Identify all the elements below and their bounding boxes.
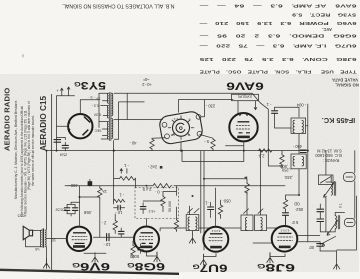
page left margin rule [51, 94, 53, 271]
heater bus 6V6 to 6G8 [84, 252, 106, 254]
junction node at 243.8,150.6 [243, 150, 245, 152]
wire socket top [179, 100, 234, 113]
electrolytic block C15 [88, 181, 93, 186]
wire 6AV6 bottom drop [243, 142, 245, 162]
6AV6 diode plates [239, 132, 251, 134]
wire socket left to transformer [114, 119, 162, 121]
cap C19 .001 [317, 244, 324, 247]
wire bottom right bus [298, 242, 337, 260]
gang 1 arrow [320, 177, 331, 183]
junction node at 46.5,150.6 [46, 150, 48, 152]
tube V3 6V6G envelope [67, 227, 91, 251]
ground under 6U7 [200, 255, 206, 265]
variable cap arrow aerial [327, 220, 338, 235]
resistor R9 rail to socket [211, 138, 215, 150]
6V6 grid dashes [72, 236, 87, 239]
IFT2 sec coil left [293, 156, 295, 166]
long vertical x307 [307, 151, 309, 242]
grid coupling line [93, 236, 132, 238]
wire 6J8 right lead [298, 235, 320, 237]
svg-text:6U7G I.F. AMP. 6.3 — 75 220 —: 6U7G I.F. AMP. 6.3 — 75 220 — [198, 44, 357, 49]
AVC dashed enclosure [135, 188, 179, 219]
grid cap C16 [208, 207, 214, 210]
socket ear hole 4 [197, 131, 202, 136]
wire IFT0 primary to screen rail [246, 192, 248, 215]
junction node at 299,195 [298, 194, 300, 196]
junction node at 56.5,150.6 [56, 150, 58, 152]
cathode bypass cap C9 [72, 208, 77, 211]
wire cathode caps to tube line [71, 201, 79, 203]
6G8 plate bar [141, 232, 153, 234]
wire IFT0 secondary to B+ [260, 151, 262, 215]
socket centre key [176, 123, 185, 132]
wire IFT0 to 6J8 [267, 227, 279, 229]
wire cathode caps [67, 202, 75, 216]
grid return resistor lead [99, 199, 101, 237]
wire between IFT2 boxes [298, 133, 300, 154]
tube V4 6AV6 envelope [229, 113, 257, 141]
grid cap arrow [254, 101, 257, 109]
wire R22 right down to AVC box [134, 178, 136, 187]
AVC line [182, 151, 244, 162]
wire transformer CT down [113, 141, 115, 205]
aerial cap bar [347, 221, 353, 223]
T2 primary winding [40, 230, 41, 247]
wire diode return [226, 145, 244, 147]
wire C24 leads [120, 228, 122, 237]
resistor R16 [245, 183, 249, 195]
osc coil L2 [331, 182, 332, 195]
wire primary branch [126, 93, 128, 119]
svg-text:5Y3G RECT. 5.9: 5Y3G RECT. 5.9 [291, 13, 356, 18]
wire IFT1 top [189, 206, 191, 215]
scan speckle overlay [0, 74, 359, 272]
6U7 base bar [210, 246, 222, 249]
wire 6U7 to IFT0 [222, 227, 241, 229]
grid resistor R6 [113, 220, 117, 232]
label 250 marker [160, 166, 163, 169]
junction node at 146.5,185.7 [146, 185, 148, 187]
cathode resistor R14 5000 [131, 245, 135, 257]
ground under T2 [43, 259, 49, 269]
wire IFT1 to 6G8 [160, 228, 186, 231]
socket inner circle [173, 119, 190, 136]
wire osc coil top [331, 175, 344, 216]
osc coil L2 core [334, 182, 335, 195]
svg-text:6V6G POWER 6.3 13.9 150 210 —: 6V6G POWER 6.3 13.9 150 210 — [198, 21, 356, 26]
wire lamp box to tube top [237, 101, 239, 114]
svg-text:AVC.: AVC. [322, 27, 332, 32]
socket pin marks [168, 116, 194, 140]
wire 6G8 top lead [146, 219, 148, 226]
chassis ground right [333, 259, 339, 269]
trimmer cap CT2 [317, 219, 324, 222]
6V6 base bar [73, 245, 85, 248]
IF transformer IFT2 primary box [291, 118, 306, 133]
IFT0 right coil [261, 217, 263, 230]
coupling cap C10 .01 [107, 234, 109, 241]
wire socket bottom to B+ rail [180, 142, 182, 151]
6J8 grid resistor R17 [283, 199, 287, 211]
filter cap C5 [118, 205, 120, 210]
coupling cap C12 .1 [272, 111, 278, 114]
wire IFT1 to 6U7 [199, 227, 210, 229]
cathode bypass cap C8 [64, 208, 69, 211]
speaker socket plate [158, 110, 203, 145]
screen rail [65, 185, 285, 187]
resistor R19 in box [161, 196, 165, 208]
gang 2 bar [346, 176, 353, 178]
wire 5V taps to rectifier [81, 93, 108, 127]
output transformer T2 speaker cone [23, 226, 32, 239]
wire coil bottoms [320, 197, 335, 232]
wire cap C17 lead [285, 215, 287, 225]
wire osc section verticals [326, 151, 355, 219]
wire cap C16 leads [210, 202, 212, 217]
wire C5 leads [114, 207, 125, 209]
5Y3 anode stroke 2 [83, 130, 89, 136]
svg-text:N.B. ALL VOLTAGES TO CHASSIS N: N.B. ALL VOLTAGES TO CHASSIS NO SIGNAL. [61, 3, 174, 9]
IFT2 sec coil right [302, 156, 304, 166]
wire T2 to 6V6 plate [46, 238, 67, 240]
svg-text:·•:: ·•: [20, 54, 25, 58]
wire IFT2 right vertical [306, 104, 308, 151]
svg-text:6G8G DEMOD. 6.3 2 20 95 —: 6G8G DEMOD. 6.3 2 20 95 — [198, 34, 357, 39]
6G8 diode plates [142, 242, 154, 244]
cathode cap C22 [138, 247, 143, 250]
wire 6J8 bottom stub [270, 253, 285, 257]
tuning gang section 1 [319, 175, 334, 185]
IF transformer IFT2 secondary box [291, 154, 306, 169]
wire C22 leads [139, 244, 141, 254]
resistor R7 screen feed [98, 187, 102, 199]
socket ear hole 2 [196, 114, 201, 119]
grid cap C17 [283, 213, 289, 216]
IFT1 coil left [188, 217, 190, 230]
T2 secondary winding [45, 230, 46, 247]
wire 6U7 bottom stub [204, 254, 217, 257]
wire socket right upper [201, 100, 205, 117]
6V6 plate bar [73, 232, 86, 234]
wire cap C12 lower lead [275, 113, 292, 128]
wire primary bottom [114, 102, 144, 139]
ground under IFT1 [189, 234, 195, 244]
T2 loop wires [26, 231, 42, 247]
wire IFT2 sec bottom [298, 169, 300, 195]
wire 6J8 top lead [285, 216, 287, 226]
ground under 6V6 [92, 253, 98, 263]
wire R21 leads [220, 200, 222, 219]
wire electrolytic stub [89, 179, 91, 186]
page bottom fold line [0, 270, 179, 274]
ground under 6J8 [267, 253, 273, 263]
6J8 plate bar [279, 232, 292, 234]
5Y3 anode stroke 1 [84, 117, 90, 123]
svg-text:TYPE USE FILA. SCN. PLATE OSC: TYPE USE FILA. SCN. PLATE OSC. PLATE [199, 70, 356, 75]
tube V1 6J8G envelope [272, 226, 298, 252]
6AV6 plate bar [238, 121, 250, 123]
wire trimmer leads [319, 204, 321, 229]
IFT0 box right [255, 215, 267, 231]
socket centre hole [180, 127, 183, 130]
power transformer T1 core [109, 93, 111, 141]
IFT2 coil left [293, 120, 295, 133]
wire 5Y3 output lead to B+ [57, 125, 69, 127]
IFT0 box left [241, 215, 253, 231]
screen dropper resistor R10 [152, 184, 172, 188]
wire IFT1 bottom [192, 231, 194, 234]
wire under IFT0 [253, 242, 272, 244]
wave switch diagonal [320, 236, 336, 246]
transformer T1 secondary windings [107, 93, 108, 103]
aerial coil L1 [335, 216, 336, 229]
long vertical feed left [201, 151, 204, 250]
trimmer cap CT1 [317, 209, 324, 212]
wire 6V6 top lead [80, 186, 100, 226]
6J8 grid dashes [278, 237, 293, 240]
6AV6 grid dashes [236, 126, 250, 129]
junction node at 260.6,150.6 [260, 150, 262, 152]
mains switch [261, 103, 283, 166]
wire IFT2 top run [275, 107, 300, 117]
cap arrow marks [120, 169, 127, 174]
transformer T1 primary winding [112, 93, 113, 116]
cap C14 [300, 150, 306, 153]
6J8 base bar [279, 246, 291, 249]
tube V2 6G8G envelope [134, 227, 159, 252]
B+ rail [47, 150, 308, 152]
tuning gang section 2 [344, 173, 356, 182]
aerial cap symbol [345, 218, 356, 226]
T2 core [42, 229, 45, 248]
IFT0 trimmer arrows [244, 209, 264, 214]
svg-text:6AV6 AF AMP. 6.3 — 64 — —: 6AV6 AF AMP. 6.3 — 64 — — [198, 4, 357, 9]
rectifier V5 5Y3G envelope [68, 114, 92, 138]
wire 6U7 top lead [215, 188, 217, 227]
6G8 grid dashes [140, 236, 154, 239]
6G8 base bar [141, 246, 153, 249]
wire T2 bottom down [46, 247, 48, 266]
junction node at 79.5,197 [79, 196, 81, 198]
wire C21 leads [143, 201, 163, 214]
wire 6G8 bottom stub [147, 252, 158, 256]
resistor R21 [218, 204, 222, 216]
tube V1b 6U7G envelope [203, 227, 228, 252]
ground under 6G8 [154, 252, 160, 262]
dial lamp box [232, 94, 259, 100]
decoupling resistor R22 [114, 176, 136, 180]
IFT2 coil right [302, 120, 304, 133]
wire R20 leads [163, 186, 177, 232]
wire HT winding taps [101, 129, 107, 139]
aerial coil core [338, 216, 339, 229]
filter electrolytic C20 [54, 140, 68, 148]
volume control R12 [280, 154, 284, 166]
wire right vertical long [337, 196, 357, 250]
6V6 cathode bar [75, 242, 85, 244]
socket ear hole 3 [165, 134, 170, 139]
5Y3 cathode arc [68, 123, 70, 130]
IFT1 coil right [195, 217, 197, 230]
resistor R20 in box [174, 219, 178, 231]
IF transformer IFT1 box [186, 215, 199, 231]
junction node at 113.6,150.6 [113, 150, 115, 152]
cap C21 in box [140, 207, 146, 210]
filter cap plus marks [57, 87, 75, 151]
6U7 plate bar [210, 233, 222, 235]
AVC arrow line [204, 177, 247, 179]
cap C24 [118, 231, 124, 234]
junction node at 204,178.8 [203, 178, 205, 180]
junction node at 307.8,150.6 [307, 150, 309, 152]
wire 5Y3 top lead [79, 100, 81, 114]
svg-text:6J8G CONV. 6.3 3.5 75 220 125: 6J8G CONV. 6.3 3.5 75 220 125 [198, 57, 356, 62]
6AV6 base bar [237, 136, 250, 139]
junction node at 113.9,150.6 [113, 150, 115, 152]
series resistor in rail [259, 149, 272, 152]
wire primary top to mains rail [114, 93, 260, 103]
IFT0 left coil [245, 217, 247, 230]
junction node at 182,150.6 [181, 150, 183, 152]
IFT1 trimmer arrows [188, 209, 200, 214]
junction node at 192.5,196 [192, 195, 194, 197]
6AV6 top dome [240, 113, 247, 115]
junction node at 181,150.6 [180, 150, 182, 152]
dropper resistor R23 [114, 199, 125, 202]
variable cap arrow osc [324, 181, 335, 197]
socket ear hole 1 [162, 122, 167, 127]
6U7 grid dashes [209, 237, 223, 240]
wire cap C19 leads [319, 242, 321, 251]
resistor R8 rail to socket [150, 138, 154, 150]
wire T2 top to rail [46, 151, 48, 230]
